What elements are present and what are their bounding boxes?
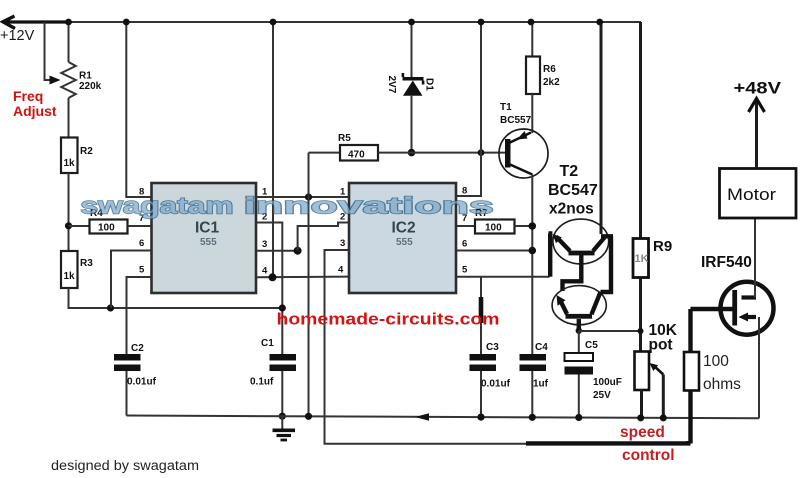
wire: ground drop from pin1 row / R5 left end: [308, 153, 310, 418]
wire: pot wiper to +12V rail: [45, 22, 61, 85]
svg-text:3: 3: [340, 238, 345, 249]
svg-text:R1: R1: [79, 71, 92, 82]
resistor R9 1K: [633, 22, 672, 352]
svg-text:designed by swagatam: designed by swagatam: [51, 458, 199, 473]
wire: IC1 pin1 to IC2 pin1 (ground row): [256, 193, 349, 200]
svg-text:1K: 1K: [635, 253, 649, 265]
svg-text:control: control: [622, 447, 675, 464]
capacitor C5 100uF 25V (electrolytic): [565, 331, 622, 421]
capacitor C4 1uf: [520, 342, 549, 421]
svg-text:Freq: Freq: [13, 88, 43, 104]
svg-text:+12V: +12V: [0, 28, 35, 44]
svg-text:2V7: 2V7: [386, 76, 397, 94]
svg-text:T1: T1: [500, 102, 512, 113]
svg-text:0.01uf: 0.01uf: [481, 379, 511, 390]
svg-text:0.1uf: 0.1uf: [250, 377, 274, 388]
ground symbol: [273, 416, 296, 440]
wire: IC1 pin2 to C1: [256, 223, 286, 355]
transistor T2 lower BC547: [552, 286, 606, 334]
svg-text:IC2: IC2: [392, 220, 416, 237]
wire: IC2 pin3 to speed control line: [325, 250, 528, 444]
resistor 100 ohms (gate): [684, 309, 741, 444]
svg-text:R2: R2: [80, 146, 93, 157]
svg-text:C2: C2: [131, 343, 144, 354]
capacitor C1 0.1uf: [250, 338, 296, 420]
resistor R1 220k (pot, zigzag): [61, 19, 101, 138]
capacitor C3 0.01uf: [470, 277, 511, 421]
svg-text:25V: 25V: [593, 390, 611, 401]
svg-text:100: 100: [98, 223, 115, 234]
svg-text:4: 4: [338, 265, 344, 276]
svg-text:220k: 220k: [79, 81, 102, 92]
node T2 labels: [548, 163, 598, 218]
svg-text:470: 470: [348, 150, 365, 161]
svg-text:100uF: 100uF: [593, 377, 622, 388]
svg-text:R3: R3: [80, 258, 93, 269]
node speed control labels: [620, 424, 675, 464]
wire: T1 base line from D1 node: [412, 149, 506, 156]
svg-text:1k: 1k: [64, 158, 76, 169]
svg-text:1k: 1k: [64, 271, 76, 282]
svg-text:T2: T2: [560, 163, 579, 180]
ground rail (bottom): [127, 413, 760, 421]
+12V supply rail (top): [2, 16, 641, 29]
wire: IC2 pin5 to T2 emitter rail: [456, 276, 550, 278]
motor M: [720, 169, 797, 219]
zener diode D1 2V7: [386, 19, 435, 157]
resistor R5 470: [309, 133, 412, 161]
resistor R4 100: [69, 208, 152, 234]
svg-text:6: 6: [462, 239, 467, 250]
svg-text:homemade-circuits.com: homemade-circuits.com: [277, 310, 500, 329]
wire: IC1 pin8 to +12V rail: [123, 19, 152, 197]
svg-text:Adjust: Adjust: [13, 103, 57, 119]
wire: speed control line (thick): [526, 441, 688, 443]
svg-text:5: 5: [139, 265, 145, 276]
wire: IC1 pin3 to IC2 pin2: [256, 223, 349, 255]
svg-text:R5: R5: [338, 133, 351, 144]
wire: IC1 pin6 down to R3 node: [111, 251, 152, 309]
wire: T2 base to R9/pot column: [579, 330, 641, 332]
wire: T2 collector rail (thick right): [601, 236, 614, 292]
svg-text:R9: R9: [653, 238, 672, 255]
svg-text:555: 555: [396, 237, 413, 248]
wire: reset row IC1 pin4 to IC2 pin4, tied to +12V rail: [256, 19, 349, 282]
svg-text:ohms: ohms: [703, 376, 741, 393]
potentiometer 10K pot: [635, 322, 678, 421]
svg-text:5: 5: [462, 265, 468, 276]
timer IC2 555: [338, 183, 468, 293]
node +48V with arrow: [734, 80, 782, 169]
svg-text:100: 100: [485, 223, 502, 234]
svg-text:1uf: 1uf: [533, 379, 549, 390]
svg-text:R6: R6: [543, 64, 556, 75]
svg-text:BC547: BC547: [548, 182, 598, 199]
wire: collector rail to +12V rail: [596, 19, 603, 234]
transistor T2 upper BC547: [553, 219, 609, 264]
transistor T1 BC557 (PNP): [499, 102, 548, 354]
svg-text:swagatam: swagatam: [81, 193, 234, 219]
svg-text:speed: speed: [620, 424, 665, 441]
wire: IC2 pin8 to +12V rail: [456, 19, 484, 196]
wire: T2 emitter rail (thick left): [549, 234, 551, 277]
svg-text:x2nos: x2nos: [549, 201, 594, 218]
svg-text:0.01uf: 0.01uf: [127, 377, 157, 388]
resistor R2 1k: [61, 138, 93, 252]
wire: IC1 pin5 down to C2: [127, 277, 152, 354]
svg-text:IRF540: IRF540: [701, 254, 752, 271]
wire: IC2 pin6 to T1 collector line: [456, 247, 536, 255]
svg-text:innovations: innovations: [244, 193, 494, 219]
svg-text:6: 6: [139, 238, 144, 249]
svg-text:2k2: 2k2: [543, 77, 560, 88]
svg-text:IC1: IC1: [195, 220, 220, 237]
resistor R7 100: [456, 208, 536, 234]
svg-text:+48V: +48V: [734, 80, 782, 98]
wire: T2 upper base to lower emitter: [563, 255, 582, 291]
svg-text:4: 4: [262, 266, 268, 277]
svg-text:C4: C4: [535, 342, 548, 353]
svg-text:555: 555: [200, 237, 217, 248]
op-amp/timer IC1 555: [139, 183, 268, 293]
MOSFET IRF540: [701, 218, 774, 419]
svg-text:Motor: Motor: [727, 186, 777, 204]
wire: gate line to MOSFET: [691, 307, 735, 311]
svg-text:D1: D1: [424, 78, 435, 91]
svg-text:C5: C5: [585, 340, 598, 351]
svg-text:C3: C3: [486, 342, 499, 353]
capacitor C2 0.01uf: [114, 343, 157, 416]
svg-text:C1: C1: [261, 338, 274, 349]
svg-text:pot: pot: [649, 337, 673, 354]
resistor R6 2k2: [526, 19, 560, 133]
svg-text:100: 100: [703, 353, 729, 370]
resistor R3 1k: [61, 251, 282, 312]
svg-text:3: 3: [262, 239, 267, 250]
svg-text:BC557: BC557: [500, 115, 532, 126]
